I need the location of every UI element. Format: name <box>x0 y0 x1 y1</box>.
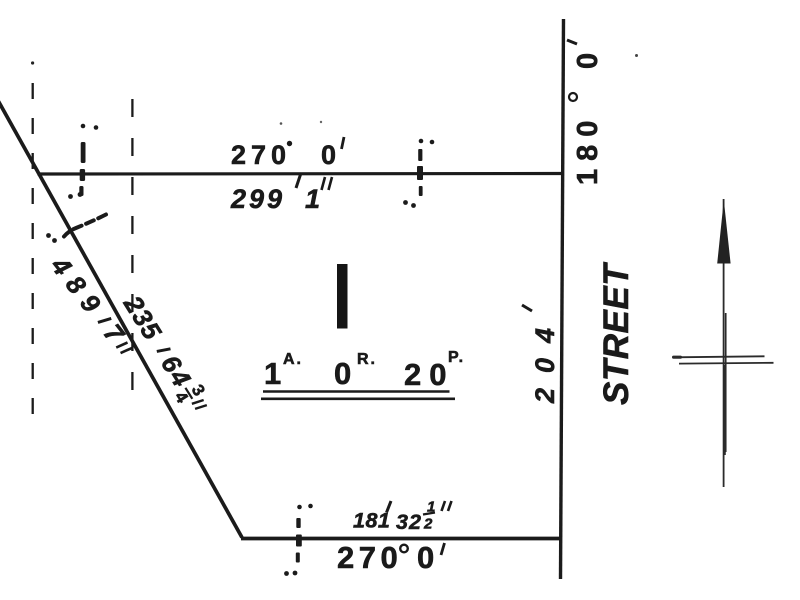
dimension 181 ft 32 1/2 in south label <box>353 499 452 535</box>
svg-text:1: 1 <box>264 356 281 391</box>
svg-text:2: 2 <box>423 516 433 533</box>
north arrow head <box>717 200 730 264</box>
svg-text:181: 181 <box>353 509 390 533</box>
node: survey tick mark crossing north boundary at x=420 <box>403 139 434 208</box>
north arrow doubled shaft stroke <box>725 313 727 452</box>
svg-text:64: 64 <box>155 350 198 394</box>
area text 1A. 0R. 20P. <box>264 349 465 392</box>
north arrow crossbar upper <box>674 356 765 357</box>
svg-text:299: 299 <box>230 184 285 214</box>
node: survey tick mark crossing south boundary at x=298 <box>284 504 313 576</box>
north arrow crossbar lower <box>679 362 774 365</box>
node: dot above left dashed line <box>31 61 34 64</box>
node: dashed fence mark crossing diagonal near (78,227) <box>46 215 106 243</box>
svg-text:270: 270 <box>337 540 402 575</box>
dimension 204 ft frontage label (rotated) <box>522 305 560 404</box>
dimension 235 ft 64 3/4 in along diagonal <box>114 288 215 420</box>
label STREET (rotated) <box>597 262 636 405</box>
svg-text:A.: A. <box>283 351 303 368</box>
svg-text:204: 204 <box>530 313 560 404</box>
svg-text:P.: P. <box>448 349 465 366</box>
lot number 1 thick bar <box>337 264 348 329</box>
dimension 299 ft 1 in distance label <box>230 173 332 214</box>
node: stray scan speck near top center <box>280 122 283 125</box>
wire: north boundary line <box>38 172 565 176</box>
svg-text:R.: R. <box>357 351 377 368</box>
north arrow heavier lower shaft stroke <box>723 365 725 455</box>
svg-text:7: 7 <box>98 318 131 349</box>
svg-text:180: 180 <box>572 113 604 185</box>
wire: diagonal west boundary line <box>0 101 242 538</box>
north arrow vertical shaft <box>723 199 725 487</box>
dimension 270 0 top bearing label <box>231 137 344 170</box>
svg-text:32: 32 <box>396 510 422 534</box>
wire: east boundary / street frontage line <box>561 19 564 579</box>
svg-text:235: 235 <box>117 289 168 345</box>
wire: right dashed reference line <box>131 99 133 406</box>
dimension 180 0 bearing label (rotated along street) <box>567 40 604 185</box>
dimension 270 0 bottom bearing label <box>337 540 445 575</box>
wire: south boundary line <box>241 537 562 541</box>
svg-text:0: 0 <box>321 140 336 170</box>
north arrow crossbar left ink blob <box>672 356 682 359</box>
wire: left dashed reference line <box>32 83 34 415</box>
node: stray scan speck right of street line <box>635 54 638 57</box>
svg-text:0: 0 <box>334 356 351 391</box>
dimension 489 ft 7 in along diagonal <box>45 250 140 360</box>
svg-text:STREET: STREET <box>597 262 636 405</box>
svg-text:270: 270 <box>231 140 291 170</box>
wire: double underline below area text <box>263 390 450 393</box>
svg-text:20: 20 <box>404 357 454 392</box>
node: stray scan speck above area figure <box>320 121 322 123</box>
svg-text:0: 0 <box>417 540 434 575</box>
node: survey tick mark crossing north boundary at x=82 <box>68 124 98 199</box>
svg-text:1: 1 <box>305 184 320 214</box>
svg-text:0: 0 <box>572 53 604 69</box>
